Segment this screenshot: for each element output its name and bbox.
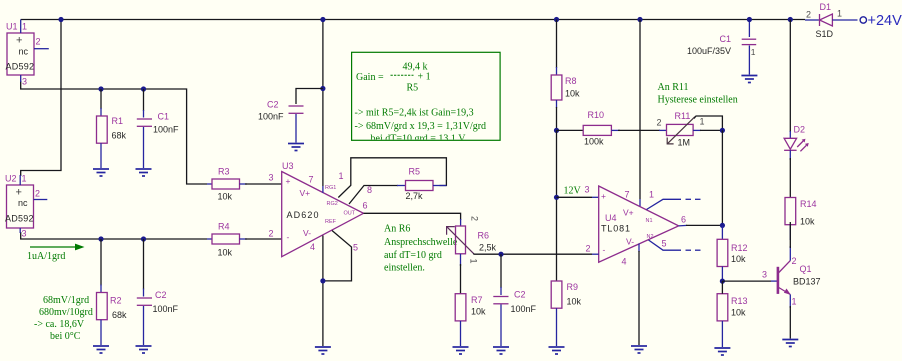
svg-text:-> ca. 18,6V: -> ca. 18,6V bbox=[34, 319, 85, 330]
svg-text:100k: 100k bbox=[584, 137, 604, 147]
svg-text:1: 1 bbox=[469, 259, 479, 264]
svg-text:100nF: 100nF bbox=[153, 125, 179, 135]
svg-text:100nF: 100nF bbox=[153, 304, 179, 314]
svg-text:4: 4 bbox=[622, 257, 627, 267]
capacitor C1 100uF/35V bbox=[687, 20, 756, 75]
wire U4 pin6 output bbox=[679, 224, 687, 227]
op-amp U3 AD620 bbox=[269, 161, 373, 257]
svg-text:12V: 12V bbox=[564, 186, 582, 197]
svg-text:V+: V+ bbox=[300, 188, 311, 198]
green annotation An R6 bbox=[384, 224, 458, 274]
svg-text:1uA/1grd: 1uA/1grd bbox=[27, 251, 65, 262]
wire U2 pin3 row to R4 bbox=[21, 232, 207, 239]
wire U4 pin1 offset null bbox=[647, 199, 701, 209]
svg-text:2: 2 bbox=[657, 118, 662, 128]
svg-text:5: 5 bbox=[662, 239, 667, 249]
svg-text:2: 2 bbox=[470, 216, 480, 221]
node output junction bbox=[720, 223, 725, 228]
svg-text:2: 2 bbox=[36, 37, 41, 47]
node rail/U3 supply junction bbox=[320, 17, 325, 22]
node R12/R13 base junction bbox=[720, 279, 725, 284]
svg-text:10k: 10k bbox=[567, 297, 582, 307]
svg-text:R2: R2 bbox=[110, 296, 122, 306]
svg-text:-> mit R5=2,4k ist Gain=19,3: -> mit R5=2,4k ist Gain=19,3 bbox=[355, 108, 474, 119]
svg-text:-: - bbox=[603, 245, 606, 255]
wire R3 to U3 pin3 bbox=[245, 183, 282, 185]
ground for R1 bbox=[93, 169, 109, 176]
svg-text:-> 68mV/grd x 19,3 = 1,31V/grd: -> 68mV/grd x 19,3 = 1,31V/grd bbox=[355, 121, 487, 132]
svg-text:N2: N2 bbox=[647, 234, 654, 240]
svg-text:AD592: AD592 bbox=[6, 62, 35, 72]
svg-text:2: 2 bbox=[269, 229, 274, 239]
svg-text:Hysterese einstellen: Hysterese einstellen bbox=[658, 95, 738, 106]
ground for R7 bbox=[453, 347, 469, 354]
resistor R9 bbox=[551, 281, 581, 346]
svg-text:C2: C2 bbox=[155, 290, 167, 300]
svg-text:R13: R13 bbox=[731, 296, 748, 306]
green annotation 68mV block bbox=[34, 295, 93, 342]
svg-text:2,5k: 2,5k bbox=[479, 243, 497, 253]
svg-text:1: 1 bbox=[792, 297, 797, 307]
wire R10 to R11 pin2 bbox=[618, 129, 660, 131]
svg-text:R4: R4 bbox=[218, 222, 230, 232]
svg-text:R11: R11 bbox=[675, 111, 691, 121]
svg-text:R10: R10 bbox=[588, 110, 605, 120]
svg-text:7: 7 bbox=[309, 175, 314, 185]
svg-text:1M: 1M bbox=[678, 138, 691, 148]
ground for R2 bbox=[93, 346, 109, 353]
node R1 tap bbox=[98, 86, 103, 91]
U1 AD592 bbox=[6, 20, 49, 87]
svg-text:Ansprechschwelle: Ansprechschwelle bbox=[384, 237, 458, 248]
ground for C2 decoupling bbox=[288, 144, 304, 151]
resistor R12 bbox=[717, 225, 747, 281]
node C1 tap bbox=[141, 86, 146, 91]
svg-text:10k: 10k bbox=[218, 192, 233, 202]
wire R11 wiper to output node bbox=[694, 116, 722, 130]
svg-text:U1: U1 bbox=[6, 22, 18, 32]
node 12V tap at U4 pin3 bbox=[554, 195, 559, 200]
svg-text:R1: R1 bbox=[112, 116, 124, 126]
potentiometer R6 2.5k bbox=[447, 216, 497, 266]
node current arrow annotation bbox=[27, 244, 85, 262]
svg-text:Gain =: Gain = bbox=[356, 72, 384, 83]
svg-text:R12: R12 bbox=[731, 243, 748, 253]
svg-text:10k: 10k bbox=[471, 307, 486, 317]
green annotation An R11 bbox=[658, 82, 738, 106]
svg-text:680mv/10grd: 680mv/10grd bbox=[39, 307, 93, 318]
svg-text:6: 6 bbox=[681, 215, 686, 225]
wire U3 pin5 REF bbox=[323, 231, 352, 281]
ground for R13 bbox=[714, 348, 730, 355]
svg-text:R5: R5 bbox=[409, 167, 421, 177]
svg-text:C2: C2 bbox=[267, 100, 279, 110]
resistor R4 bbox=[207, 222, 247, 258]
svg-text:3: 3 bbox=[585, 185, 590, 195]
svg-text:+: + bbox=[601, 191, 606, 201]
node C2 mid tap bbox=[498, 252, 503, 257]
capacitor C2 100nF (lower left) bbox=[137, 239, 179, 345]
svg-text:3: 3 bbox=[269, 173, 274, 183]
svg-text:68mV/1grd: 68mV/1grd bbox=[43, 295, 89, 306]
svg-text:U3: U3 bbox=[282, 161, 294, 171]
U2 AD592 bbox=[5, 174, 47, 239]
svg-text:1: 1 bbox=[22, 174, 27, 184]
wire R11 pin1 to output node bbox=[693, 129, 701, 131]
svg-text:1: 1 bbox=[837, 9, 842, 19]
wire U4 pin2 stub bbox=[592, 253, 599, 255]
svg-text:RG1: RG1 bbox=[325, 185, 336, 191]
wire U3 pin1 RG1 loop bbox=[338, 158, 446, 198]
svg-text:68k: 68k bbox=[112, 131, 127, 141]
resistor R2 bbox=[97, 239, 128, 345]
svg-text:8: 8 bbox=[367, 185, 372, 195]
svg-text:R5: R5 bbox=[407, 83, 419, 94]
svg-text:R9: R9 bbox=[567, 282, 579, 292]
resistor R8 bbox=[551, 20, 580, 101]
svg-text:OUT: OUT bbox=[344, 211, 356, 217]
capacitor C2 100nF (decoupling, top middle) bbox=[258, 89, 323, 143]
svg-text:1: 1 bbox=[339, 171, 344, 181]
svg-text:An R6: An R6 bbox=[384, 224, 410, 235]
ground for C2 lower left bbox=[136, 346, 152, 353]
svg-text:+: + bbox=[16, 187, 22, 199]
resistor R7 bbox=[455, 294, 486, 346]
svg-text:BD137: BD137 bbox=[793, 277, 821, 287]
capacitor C1 100nF bbox=[137, 89, 179, 168]
node C2 decoupling tap junction bbox=[320, 86, 325, 91]
wire U1 pin3 row to R3 elbow bbox=[21, 81, 207, 184]
svg-text:U2: U2 bbox=[5, 174, 17, 184]
ground for C1 bbox=[741, 76, 757, 83]
wire divider node down to R9 bbox=[556, 130, 558, 281]
svg-text:+: + bbox=[286, 176, 291, 186]
node R11 pin1/wiper junction bbox=[720, 128, 725, 133]
svg-text:R14: R14 bbox=[800, 199, 817, 209]
node C2 tap bbox=[141, 236, 146, 241]
resistor R5 bbox=[406, 167, 447, 202]
resistor R10 bbox=[557, 110, 621, 147]
svg-text:R3: R3 bbox=[218, 167, 230, 177]
svg-text:R7: R7 bbox=[471, 295, 483, 305]
svg-text:1: 1 bbox=[751, 47, 756, 57]
diode D1 S1D bbox=[805, 2, 858, 39]
LED D2 bbox=[784, 20, 809, 161]
node +24V terminal bbox=[860, 17, 866, 23]
node R8/R10 junction bbox=[554, 128, 559, 133]
svg-text:1: 1 bbox=[22, 22, 27, 32]
ground for U4 bbox=[631, 346, 647, 353]
svg-text:AD620: AD620 bbox=[287, 210, 319, 220]
svg-text:100uF/35V: 100uF/35V bbox=[687, 46, 731, 56]
svg-text:10k: 10k bbox=[731, 254, 746, 264]
svg-text:+: + bbox=[16, 35, 22, 47]
node rail/R8 junction bbox=[554, 17, 559, 22]
svg-text:V-: V- bbox=[303, 228, 311, 238]
svg-text:10k: 10k bbox=[565, 89, 580, 99]
wire U2 supply drop from rail bbox=[21, 20, 61, 177]
svg-text:2: 2 bbox=[792, 256, 797, 266]
wire U4 pin5 offset null bbox=[649, 240, 701, 250]
wire U3 pin4 down to ground bbox=[322, 236, 324, 347]
ground for R9 bbox=[549, 347, 565, 354]
svg-text:N1: N1 bbox=[646, 218, 653, 224]
svg-text:+24V: +24V bbox=[868, 13, 902, 29]
svg-text:C1: C1 bbox=[720, 34, 732, 44]
svg-text:6: 6 bbox=[363, 201, 368, 211]
svg-text:10k: 10k bbox=[800, 217, 815, 227]
svg-text:1: 1 bbox=[649, 190, 654, 200]
svg-text:5: 5 bbox=[353, 243, 358, 253]
svg-text:+ 1: + 1 bbox=[418, 72, 431, 83]
svg-text:3: 3 bbox=[22, 77, 27, 87]
svg-text:68k: 68k bbox=[112, 310, 127, 320]
svg-text:nc: nc bbox=[19, 47, 29, 57]
svg-text:2: 2 bbox=[806, 10, 811, 20]
wire U3 pin6 output to R6 bbox=[364, 213, 461, 220]
svg-text:V-: V- bbox=[626, 237, 634, 247]
resistor R1 bbox=[97, 89, 127, 168]
svg-text:10k: 10k bbox=[731, 308, 746, 318]
node rail/D2 junction bbox=[788, 17, 793, 22]
svg-text:2: 2 bbox=[35, 189, 40, 199]
wire U1 pin3 stub bbox=[20, 75, 22, 82]
wire U3 pin8 RG2 to R5 bbox=[349, 186, 398, 205]
wire R6 wiper to U4 pin2 bbox=[473, 253, 592, 255]
svg-text:nc: nc bbox=[18, 198, 28, 208]
wire hysteresis feedback down to U4 output bbox=[721, 130, 723, 225]
wire base drive to Q1 bbox=[722, 280, 771, 282]
svg-text:4: 4 bbox=[310, 242, 315, 252]
svg-text:S1D: S1D bbox=[816, 29, 834, 39]
svg-text:D2: D2 bbox=[794, 125, 806, 135]
svg-text:TL081: TL081 bbox=[601, 224, 630, 234]
wire R6 pin1 down to R7 bbox=[460, 264, 462, 294]
svg-text:einstellen.: einstellen. bbox=[384, 263, 425, 274]
svg-text:RG2: RG2 bbox=[327, 201, 338, 207]
wire U3 pin7 supply drop from rail bbox=[322, 20, 324, 187]
svg-text:7: 7 bbox=[625, 190, 630, 200]
op-amp U4 TL081 bbox=[585, 185, 687, 267]
wire U4 pin4 down to ground bbox=[638, 244, 640, 253]
green gain formula box bbox=[352, 52, 501, 144]
svg-text:AD592: AD592 bbox=[5, 214, 34, 224]
node rail/U4 supply junction bbox=[637, 17, 642, 22]
svg-text:3: 3 bbox=[22, 229, 27, 239]
svg-text:1: 1 bbox=[700, 117, 705, 127]
resistor R3 bbox=[207, 167, 247, 202]
node R2 tap bbox=[98, 236, 103, 241]
svg-text:100nF: 100nF bbox=[258, 112, 284, 122]
svg-text:REF: REF bbox=[325, 219, 337, 225]
wire top +24V rail bbox=[21, 19, 805, 21]
svg-text:100nF: 100nF bbox=[511, 304, 537, 314]
resistor R14 bbox=[785, 198, 817, 241]
svg-text:auf dT=10 grd: auf dT=10 grd bbox=[384, 250, 442, 261]
node REF/pin4 junction bbox=[320, 278, 325, 283]
wire 12V node to U4 pin3 bbox=[557, 196, 593, 198]
svg-text:2: 2 bbox=[586, 244, 591, 254]
svg-text:R8: R8 bbox=[565, 76, 577, 86]
ground for Q1 emitter bbox=[782, 340, 798, 347]
ground for C2 middle bbox=[493, 347, 509, 354]
svg-text:V+: V+ bbox=[623, 208, 634, 218]
resistor R13 bbox=[717, 281, 747, 347]
svg-text:bei 0°C: bei 0°C bbox=[50, 331, 81, 342]
svg-text:An R11: An R11 bbox=[658, 82, 689, 93]
svg-text:U4: U4 bbox=[605, 213, 617, 223]
wire D2 to R14 bbox=[789, 158, 791, 198]
svg-text:-: - bbox=[287, 232, 290, 242]
ground for U3 bbox=[315, 347, 331, 354]
ground for C1 bbox=[136, 169, 152, 176]
transistor Q1 BD137 bbox=[762, 222, 821, 339]
svg-text:C2: C2 bbox=[514, 290, 526, 300]
svg-text:C1: C1 bbox=[158, 112, 170, 122]
node rail/C1 junction bbox=[747, 17, 752, 22]
svg-text:D1: D1 bbox=[820, 2, 832, 12]
node rail/U2 junction bbox=[58, 17, 63, 22]
svg-text:3: 3 bbox=[762, 270, 767, 280]
svg-text:10k: 10k bbox=[218, 248, 233, 258]
wire U4 pin7 supply drop bbox=[639, 20, 641, 200]
capacitor C2 100nF (middle) bbox=[493, 254, 536, 346]
potentiometer R11 1M bbox=[657, 111, 705, 148]
svg-text:R6: R6 bbox=[478, 231, 490, 241]
wire R8 to divider node bbox=[556, 100, 558, 108]
wire R4 to U3 pin2 bbox=[245, 238, 282, 240]
svg-text:2,7k: 2,7k bbox=[406, 191, 424, 201]
svg-text:Q1: Q1 bbox=[800, 264, 812, 274]
